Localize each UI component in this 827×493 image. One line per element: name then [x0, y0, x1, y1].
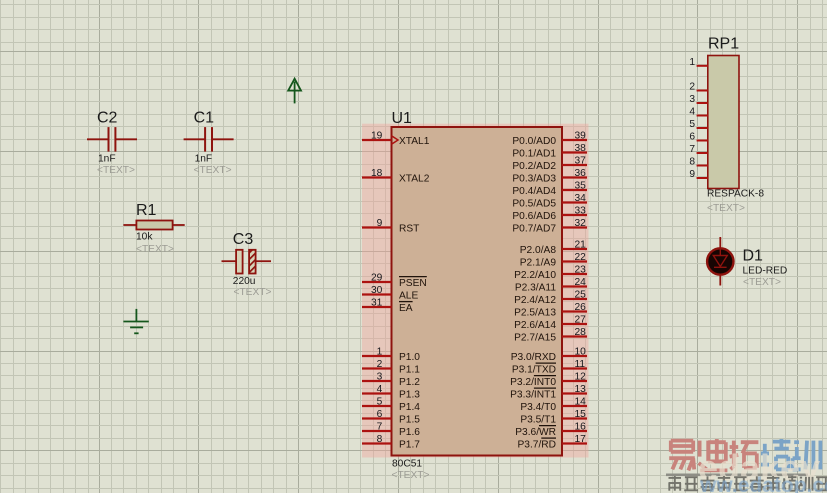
U1 pin name P3.3/INT1 — [534, 387, 556, 389]
svg-text:P3.1/TXD: P3.1/TXD — [512, 365, 556, 376]
U1 pin name P3.2/INT0 — [534, 375, 556, 377]
resistor R1 : left wire — [123, 224, 136, 226]
U1 pin 26 (P2.5/A13) stub — [562, 310, 587, 312]
U1 pin 29 (PSEN) stub — [362, 281, 392, 283]
U1 pin 35 (P0.4/AD4) stub — [562, 189, 587, 191]
LED D1 diode symbol — [713, 248, 727, 267]
U1 pin 24 (P2.3/A11) stub — [562, 285, 587, 287]
svg-text:17: 17 — [575, 434, 587, 445]
watermark slogan line — [669, 476, 682, 491]
svg-text:P3.4/T0: P3.4/T0 — [520, 402, 556, 413]
LED D1 body circle — [707, 248, 733, 274]
svg-text:P2.7/A15: P2.7/A15 — [514, 333, 556, 344]
svg-text:P0.7/AD7: P0.7/AD7 — [512, 224, 556, 235]
U1 pin 4 (P1.3) stub — [362, 392, 392, 394]
svg-text:25: 25 — [575, 290, 587, 301]
svg-text:P0.2/AD2: P0.2/AD2 — [512, 161, 556, 172]
svg-text:<TEXT>: <TEXT> — [707, 203, 745, 214]
svg-text:4: 4 — [689, 107, 695, 118]
svg-text:39: 39 — [575, 131, 587, 142]
svg-text:P3.5/T1: P3.5/T1 — [520, 415, 556, 426]
RP1 pin 3 stub — [697, 102, 708, 104]
capacitor C3 : right wire — [256, 260, 271, 262]
U1 pin 31 (EA) stub — [362, 306, 392, 308]
svg-text:RST: RST — [399, 224, 419, 235]
svg-text:P1.5: P1.5 — [399, 415, 420, 426]
U1 pin 3 (P1.2) stub — [362, 380, 392, 382]
U1 pin 38 (P0.1/AD1) stub — [562, 151, 587, 153]
svg-text:18: 18 — [371, 168, 383, 179]
U1 pin 9 (RST) stub — [362, 226, 392, 228]
svg-text:C3: C3 — [233, 231, 254, 248]
U1 pin 34 (P0.5/AD5) stub — [562, 201, 587, 203]
svg-text:P2.6/A14: P2.6/A14 — [514, 320, 556, 331]
RP1 pin 6 stub — [697, 140, 708, 142]
U1 pin 30 (ALE) stub — [362, 293, 392, 295]
svg-text:P1.0: P1.0 — [399, 352, 420, 363]
RP1 pin 1 stub — [697, 65, 708, 67]
svg-text:EA: EA — [399, 303, 413, 314]
ground symbol — [123, 309, 148, 333]
U1 pin 21 (P2.0/A8) stub — [562, 248, 587, 250]
svg-text:C2: C2 — [97, 110, 118, 127]
U1 pin name P3.6/WR — [539, 425, 556, 427]
capacitor C2 : right wire — [115, 138, 137, 140]
U1 pin 1 (P1.0) stub — [362, 355, 392, 357]
U1 pin 18 (XTAL2) stub — [362, 176, 392, 178]
svg-text:1nF: 1nF — [195, 154, 213, 165]
U1 pin 14 (P3.4/T0) stub — [562, 405, 587, 407]
U1 pin name P3.7/RD — [541, 437, 556, 439]
svg-text:P2.3/A11: P2.3/A11 — [515, 283, 556, 294]
svg-text:P3.2/INT0: P3.2/INT0 — [510, 377, 556, 388]
U1 pin 10 (P3.0/RXD) stub — [562, 355, 587, 357]
RP1 pin 8 stub — [697, 165, 708, 167]
U1 pin 22 (P2.1/A9) stub — [562, 260, 587, 262]
U1 pin name PSEN — [399, 276, 427, 278]
svg-text:D1: D1 — [743, 248, 764, 265]
svg-text:P1.3: P1.3 — [399, 390, 420, 401]
svg-text:U1: U1 — [392, 110, 413, 127]
U1 pin 27 (P2.6/A14) stub — [562, 323, 587, 325]
U1 pin 11 (P3.1/TXD) stub — [562, 367, 587, 369]
svg-text:LED-RED: LED-RED — [743, 266, 788, 277]
svg-text:P0.1/AD1: P0.1/AD1 — [512, 149, 556, 160]
svg-text:<TEXT>: <TEXT> — [136, 244, 174, 255]
svg-text:3: 3 — [689, 94, 695, 105]
svg-text:ALE: ALE — [399, 291, 418, 302]
capacitor C1 : left wire — [184, 138, 206, 140]
svg-text:<TEXT>: <TEXT> — [743, 277, 781, 288]
svg-text:7: 7 — [377, 422, 383, 433]
RP1 pin 2 stub — [697, 90, 708, 92]
capacitor C3 : right plate (hatched, polarized) — [249, 250, 256, 274]
svg-text:13: 13 — [575, 384, 587, 395]
svg-text:80C51: 80C51 — [392, 459, 422, 470]
svg-text:RP1: RP1 — [708, 36, 739, 53]
U1 pin 6 (P1.5) stub — [362, 417, 392, 419]
svg-text:P0.4/AD4: P0.4/AD4 — [512, 186, 556, 197]
svg-text:31: 31 — [371, 298, 383, 309]
svg-text:36: 36 — [575, 168, 587, 179]
U1 pin 12 (P3.2/INT0) stub — [562, 380, 587, 382]
U1 pin 23 (P2.2/A10) stub — [562, 273, 587, 275]
svg-text:9: 9 — [377, 218, 383, 229]
U1 pin name P3.1/TXD — [536, 362, 556, 364]
U1 pin 5 (P1.4) stub — [362, 405, 392, 407]
RP1 body — [708, 56, 739, 189]
svg-text:21: 21 — [575, 240, 587, 251]
svg-text:P1.7: P1.7 — [399, 440, 420, 451]
U1 XTAL1 clock marker — [392, 136, 399, 145]
svg-text:3: 3 — [377, 372, 383, 383]
svg-text:P2.4/A12: P2.4/A12 — [514, 295, 556, 306]
capacitor C2 : left plate — [108, 127, 110, 152]
svg-text:4: 4 — [377, 384, 383, 395]
svg-text:32: 32 — [575, 218, 587, 229]
svg-text:<TEXT>: <TEXT> — [392, 470, 430, 481]
LED D1 bottom wire — [719, 275, 721, 286]
svg-text:P0.0/AD0: P0.0/AD0 — [512, 136, 556, 147]
capacitor C3 : left wire — [222, 260, 237, 262]
svg-text:P0.6/AD6: P0.6/AD6 — [512, 211, 556, 222]
svg-text:220u: 220u — [233, 276, 256, 287]
capacitor C2 : right plate — [114, 127, 116, 152]
svg-text:6: 6 — [689, 132, 695, 143]
U1 pin 37 (P0.2/AD2) stub — [562, 164, 587, 166]
svg-text:33: 33 — [575, 206, 587, 217]
U1 pin 25 (P2.4/A12) stub — [562, 298, 587, 300]
U1 pin 39 (P0.0/AD0) stub — [562, 139, 587, 141]
capacitor C2 : left wire — [87, 138, 109, 140]
capacitor C1 : right plate — [211, 127, 213, 152]
U1 pin 8 (P1.7) stub — [362, 442, 392, 444]
svg-text:P2.5/A13: P2.5/A13 — [514, 308, 556, 319]
svg-text:1nF: 1nF — [98, 154, 116, 165]
svg-text:P1.6: P1.6 — [399, 427, 420, 438]
watermark underline — [666, 474, 808, 477]
svg-text:28: 28 — [575, 327, 587, 338]
power symbol (arrow up) — [288, 79, 301, 104]
svg-text:10: 10 — [575, 347, 587, 358]
U1 pin 28 (P2.7/A15) stub — [562, 335, 587, 337]
svg-text:23: 23 — [575, 265, 587, 276]
svg-text:P1.4: P1.4 — [399, 402, 420, 413]
RP1 pin 9 stub — [697, 177, 708, 179]
svg-text:P0.5/AD5: P0.5/AD5 — [512, 199, 556, 210]
U1 selection highlight — [362, 124, 589, 458]
U1 pin 32 (P0.7/AD7) stub — [562, 226, 587, 228]
svg-text:35: 35 — [575, 181, 587, 192]
RP1 pin 7 stub — [697, 152, 708, 154]
svg-text:2: 2 — [689, 82, 695, 93]
svg-text:P3.7/RD: P3.7/RD — [517, 440, 556, 451]
svg-text:P3.0/RXD: P3.0/RXD — [511, 352, 556, 363]
U1 pin 13 (P3.3/INT1) stub — [562, 392, 587, 394]
svg-text:34: 34 — [575, 193, 587, 204]
svg-text:8: 8 — [689, 157, 695, 168]
U1 pin 16 (P3.6/WR) stub — [562, 430, 587, 432]
svg-text:P2.0/A8: P2.0/A8 — [520, 245, 557, 256]
svg-text:1: 1 — [377, 347, 383, 358]
U1 pin 33 (P0.6/AD6) stub — [562, 214, 587, 216]
svg-text:30: 30 — [371, 285, 383, 296]
svg-text:P1.2: P1.2 — [399, 377, 420, 388]
svg-text:8: 8 — [377, 434, 383, 445]
svg-text:XTAL1: XTAL1 — [399, 136, 430, 147]
U1 body (80C51) — [392, 127, 563, 456]
svg-text:7: 7 — [689, 144, 695, 155]
svg-text:P3.6/WR: P3.6/WR — [515, 427, 556, 438]
U1 pin 2 (P1.1) stub — [362, 367, 392, 369]
svg-text:C1: C1 — [194, 110, 215, 127]
svg-text:19: 19 — [371, 131, 383, 142]
LED D1 top wire — [719, 237, 721, 248]
U1 pin 15 (P3.5/T1) stub — [562, 417, 587, 419]
svg-text:<TEXT>: <TEXT> — [234, 287, 272, 298]
svg-text:14: 14 — [575, 397, 587, 408]
capacitor C1 : left plate — [204, 127, 206, 152]
svg-text:5: 5 — [689, 119, 695, 130]
svg-text:P3.3/INT1: P3.3/INT1 — [510, 390, 556, 401]
svg-text:R1: R1 — [136, 202, 157, 219]
svg-text:27: 27 — [575, 315, 587, 326]
svg-text:P2.1/A9: P2.1/A9 — [520, 258, 557, 269]
svg-text:10k: 10k — [136, 232, 153, 243]
svg-text:P1.1: P1.1 — [399, 365, 420, 376]
svg-text:12: 12 — [575, 372, 587, 383]
svg-text:37: 37 — [575, 156, 587, 167]
U1 pin 36 (P0.3/AD3) stub — [562, 176, 587, 178]
svg-text:29: 29 — [371, 273, 383, 284]
U1 pin 17 (P3.7/RD) stub — [562, 442, 587, 444]
svg-text:ww.edatop.com: ww.edatop.com — [699, 474, 827, 493]
svg-text:24: 24 — [575, 277, 587, 288]
svg-text:XTAL2: XTAL2 — [399, 174, 430, 185]
svg-text:P2.2/A10: P2.2/A10 — [514, 270, 556, 281]
svg-text:RESPACK-8: RESPACK-8 — [707, 189, 764, 200]
RP1 pin 4 stub — [697, 115, 708, 117]
svg-text:<TEXT>: <TEXT> — [97, 165, 135, 176]
svg-text:2: 2 — [377, 359, 383, 370]
svg-text:PSEN: PSEN — [399, 278, 427, 289]
svg-text:38: 38 — [575, 143, 587, 154]
U1 pin name EA — [399, 301, 413, 303]
resistor R1 : right wire — [173, 224, 185, 226]
RP1 pin 5 stub — [697, 127, 708, 129]
svg-text:26: 26 — [575, 302, 587, 313]
svg-text:<TEXT>: <TEXT> — [194, 165, 232, 176]
capacitor C3 : left plate — [236, 250, 243, 274]
capacitor C1 : right wire — [212, 138, 234, 140]
svg-text:16: 16 — [575, 422, 587, 433]
svg-text:6: 6 — [377, 409, 383, 420]
U1 pin 19 (XTAL1) stub — [362, 139, 392, 141]
svg-text:1: 1 — [689, 57, 695, 68]
svg-text:5: 5 — [377, 397, 383, 408]
U1 pin 7 (P1.6) stub — [362, 430, 392, 432]
svg-text:P0.3/AD3: P0.3/AD3 — [512, 174, 556, 185]
svg-text:9: 9 — [689, 169, 695, 180]
svg-text:11: 11 — [575, 359, 586, 370]
watermark logo big characters — [669, 441, 695, 471]
svg-text:15: 15 — [575, 409, 587, 420]
svg-text:22: 22 — [575, 252, 587, 263]
resistor R1 : body — [136, 221, 172, 230]
